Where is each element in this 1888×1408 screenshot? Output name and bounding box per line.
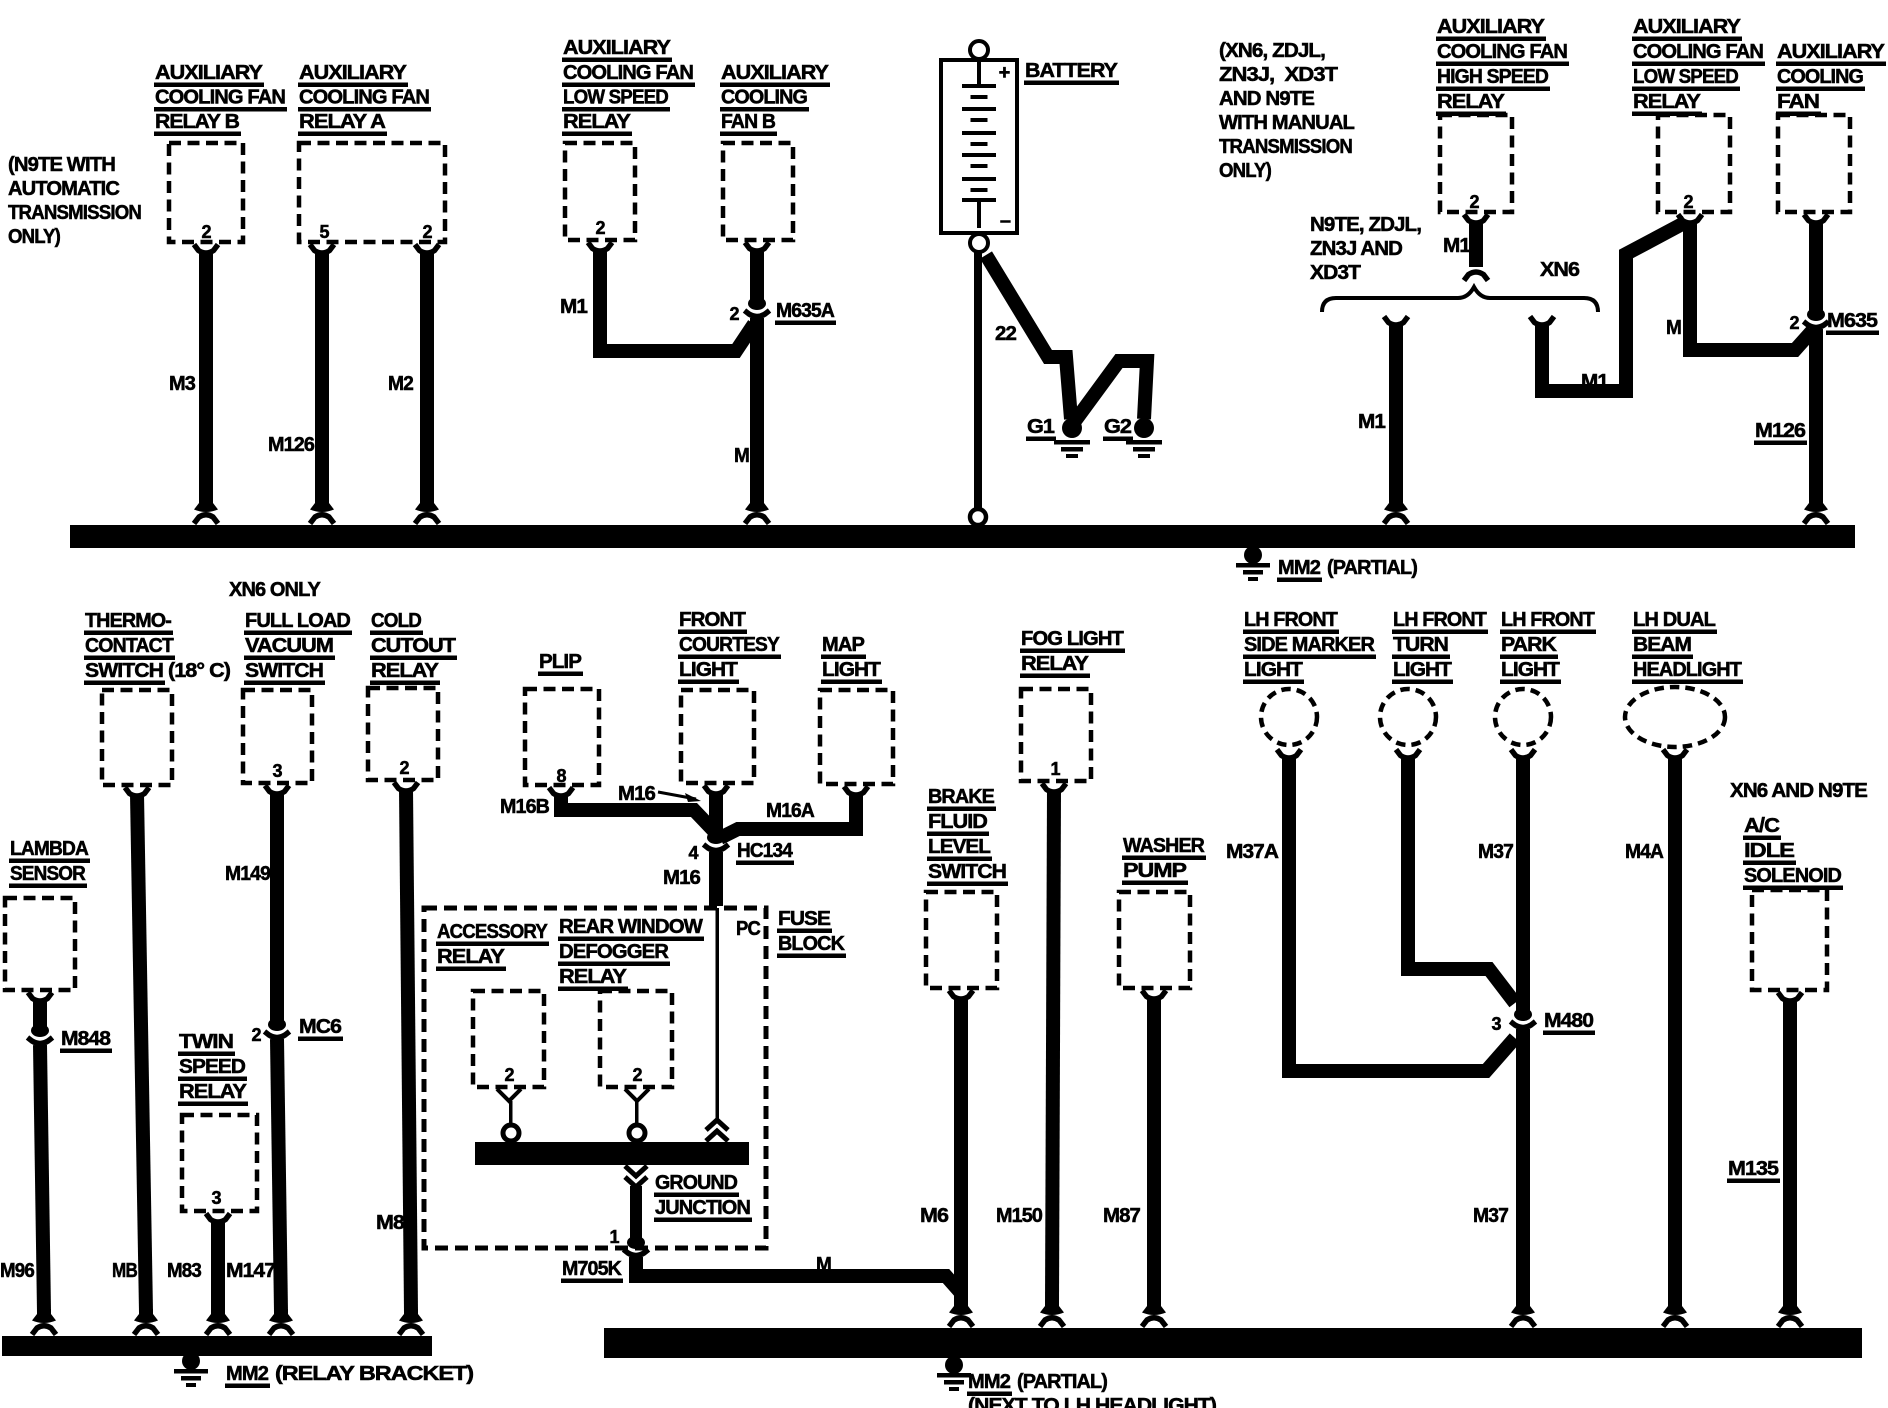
svg-text:(18° C): (18° C) [168, 659, 230, 682]
bus connector for headlight wire [1663, 1301, 1687, 1327]
relay K-LSR (auxiliary cooling fan low speed relay, right) [1658, 115, 1730, 212]
connector cup below brace left (N9TE branch) [1384, 317, 1408, 326]
connector cup at cold cutout relay [394, 783, 418, 792]
svg-text:AUXILIARY: AUXILIARY [1633, 15, 1741, 38]
svg-text:–: – [1000, 210, 1011, 232]
wire M3 (relay B pin 2 to ground bus) [199, 251, 213, 501]
ground symbol G1 [1054, 440, 1090, 458]
connector cup at fan B [745, 243, 769, 252]
ground junction bus [475, 1142, 749, 1165]
bus connector for wire M2 [415, 498, 439, 524]
wire M1 from high speed relay to option brace [1469, 221, 1483, 267]
map light [820, 690, 893, 784]
defogger relay stem to ground junction [625, 1089, 649, 1141]
accessory relay label [436, 920, 549, 971]
svg-text:ACCESSORY: ACCESSORY [437, 920, 548, 943]
note text (XN6, ZDJL, ZN3J, XD3T AND N9TE WITH MANUAL TRANSMISSION ONLY) [1219, 39, 1354, 182]
svg-text:+: + [999, 62, 1010, 84]
svg-text:M16: M16 [618, 782, 655, 805]
svg-text:AUXILIARY: AUXILIARY [299, 61, 407, 84]
svg-text:G2: G2 [1104, 415, 1132, 438]
svg-text:COURTESY: COURTESY [679, 633, 780, 656]
svg-text:PC: PC [736, 917, 761, 940]
svg-text:AND N9TE: AND N9TE [1219, 87, 1314, 110]
svg-text:COOLING: COOLING [1777, 65, 1863, 88]
svg-text:2: 2 [399, 758, 409, 778]
wire M37 (turn light to splice M480) [1408, 756, 1515, 1003]
svg-text:LIGHT: LIGHT [1501, 658, 1560, 681]
svg-text:LIGHT: LIGHT [1244, 658, 1303, 681]
ground bus MM2 relay bracket (bottom left) [2, 1336, 432, 1356]
svg-text:M150: M150 [996, 1204, 1042, 1227]
svg-text:COOLING FAN: COOLING FAN [155, 86, 285, 109]
wire M8 (cold cutout relay to relay bracket bus) [406, 789, 411, 1312]
connector cup at headlight [1663, 750, 1687, 759]
fuse block label [777, 907, 846, 958]
label MC6 [298, 1015, 343, 1041]
full load vacuum switch [243, 690, 312, 783]
svg-text:M705K: M705K [562, 1257, 622, 1280]
accessory relay stem to ground junction [497, 1089, 521, 1141]
svg-text:M635: M635 [1827, 309, 1878, 332]
brake fluid level switch label [927, 785, 1008, 886]
auxiliary cooling fan B (motor) [723, 143, 793, 240]
twin speed relay label [178, 1030, 248, 1106]
svg-text:SENSOR: SENSOR [10, 862, 86, 885]
connector cup at lambda sensor [28, 993, 52, 1002]
svg-text:RELAY: RELAY [1437, 90, 1505, 113]
label MM2 (PARTIAL) bottom [967, 1370, 1107, 1396]
svg-text:FRONT: FRONT [679, 608, 746, 631]
ground symbol MM2 relay bracket [174, 1352, 208, 1387]
connector cup at relay K-LS pin 2 [588, 243, 612, 252]
wire M96 (splice M848 to relay bracket bus) [40, 1045, 44, 1312]
LH dual beam headlight [1625, 687, 1725, 747]
svg-text:(RELAY BRACKET): (RELAY BRACKET) [275, 1362, 473, 1385]
front courtesy light label [678, 608, 781, 684]
bus connector for wire M [745, 498, 769, 524]
connector cup at fan [1804, 215, 1828, 224]
svg-text:DEFOGGER: DEFOGGER [559, 940, 669, 963]
svg-text:M1: M1 [1581, 370, 1608, 393]
splice MC6 [265, 1018, 290, 1038]
bus connector for wire M147 [269, 1309, 293, 1335]
svg-text:M16A: M16A [766, 799, 815, 822]
svg-text:COOLING FAN: COOLING FAN [1633, 40, 1763, 63]
LH front side marker light label [1243, 608, 1376, 684]
svg-text:AUTOMATIC: AUTOMATIC [8, 177, 120, 200]
wire M135 (A/C idle solenoid to ground bus) [1783, 999, 1797, 1304]
svg-text:M: M [816, 1253, 831, 1276]
wire M1 (XN6 branch to low speed relay) [1542, 222, 1686, 391]
label M848 [60, 1027, 112, 1053]
connector cup at map light [844, 787, 868, 796]
svg-text:M4A: M4A [1625, 840, 1664, 863]
wire from fan B to splice M635A [750, 249, 764, 302]
svg-text:2: 2 [1469, 192, 1479, 212]
svg-text:MM2: MM2 [226, 1362, 268, 1385]
ground junction label [654, 1171, 752, 1222]
lambda sensor [5, 898, 75, 990]
connector cup at turn light [1396, 750, 1420, 759]
wire M6 (brake fluid level switch to ground bus) [954, 997, 968, 1304]
bus connector for wire M8 [399, 1309, 423, 1335]
svg-text:GROUND: GROUND [655, 1171, 737, 1194]
svg-text:LH FRONT: LH FRONT [1501, 608, 1595, 631]
ground bus MM2 (top) [70, 525, 1855, 548]
ground bus MM2 next to LH headlight (bottom right) [604, 1328, 1862, 1358]
bus connector for wire M6 [949, 1301, 973, 1327]
wire M16B (PLIP to junction) [561, 794, 714, 831]
svg-text:MM2: MM2 [1278, 556, 1320, 579]
wire M2 (relay A pin 2 to ground bus) [420, 251, 434, 501]
label M16 with arrow [618, 782, 701, 805]
svg-text:RELAY: RELAY [563, 110, 631, 133]
svg-text:M8: M8 [376, 1211, 405, 1234]
relay K-B label: AUXILIARY COOLING FAN RELAY B [154, 61, 287, 136]
svg-text:RELAY B: RELAY B [155, 110, 239, 133]
svg-text:XN6 AND N9TE: XN6 AND N9TE [1730, 779, 1867, 802]
splice M480 [1511, 1008, 1536, 1028]
svg-text:M480: M480 [1544, 1009, 1594, 1032]
relay K-LS label: AUXILIARY COOLING FAN LOW SPEED RELAY [562, 36, 695, 136]
svg-text:M6: M6 [920, 1204, 949, 1227]
twin speed relay [182, 1115, 257, 1211]
PLIP label [538, 650, 583, 676]
svg-text:FAN B: FAN B [721, 110, 775, 133]
svg-text:PARK: PARK [1501, 633, 1557, 656]
svg-text:M16B: M16B [500, 795, 549, 818]
bus connector for wire M87 [1142, 1301, 1166, 1327]
svg-text:M126: M126 [1755, 419, 1806, 442]
svg-text:M635A: M635A [776, 299, 835, 322]
svg-text:(PARTIAL): (PARTIAL) [1017, 1370, 1107, 1393]
svg-text:RELAY: RELAY [179, 1080, 247, 1103]
svg-text:PLIP: PLIP [539, 650, 581, 673]
bus connector for wire M3 [194, 498, 218, 524]
map light label [821, 633, 882, 684]
option brace (N9TE... / XN6 split) [1322, 287, 1598, 312]
label M135 [1727, 1157, 1780, 1183]
svg-text:LIGHT: LIGHT [822, 658, 881, 681]
svg-text:AUXILIARY: AUXILIARY [721, 61, 829, 84]
wire from ground junction to splice M705K [630, 1186, 642, 1242]
label HC134 [736, 839, 794, 865]
connector cup at side marker light [1277, 750, 1301, 759]
svg-text:HEADLIGHT: HEADLIGHT [1633, 658, 1742, 681]
svg-text:COLD: COLD [371, 609, 421, 632]
wire from G1 to ground G2 [1075, 361, 1147, 421]
svg-text:HC134: HC134 [737, 839, 793, 862]
fog light relay label [1020, 627, 1125, 678]
wire M37A (side marker light to splice M480) [1289, 756, 1515, 1071]
wire MB (thermo-contact switch to relay bracket bus) [137, 794, 146, 1312]
splice M848 [28, 1024, 53, 1044]
svg-text:TRANSMISSION: TRANSMISSION [8, 201, 141, 224]
svg-text:LEVEL: LEVEL [928, 835, 990, 858]
svg-text:BATTERY: BATTERY [1025, 59, 1118, 82]
svg-text:M37A: M37A [1226, 840, 1279, 863]
bus connector for wire M37 [1511, 1301, 1535, 1327]
svg-text:COOLING: COOLING [721, 86, 807, 109]
brake fluid level switch [926, 892, 997, 988]
svg-text:M16: M16 [663, 866, 700, 889]
svg-text:M83: M83 [167, 1259, 201, 1282]
LH front side marker light [1261, 689, 1317, 745]
svg-text:1: 1 [1050, 759, 1060, 779]
wire M1 (N9TE branch to ground bus) [1389, 323, 1403, 501]
wire M (low speed relay to splice M635) [1690, 221, 1812, 350]
svg-text:2: 2 [1683, 192, 1693, 212]
connector cup at relay K-LSR pin 2 [1678, 215, 1702, 224]
svg-text:M2: M2 [388, 372, 413, 395]
svg-text:SIDE MARKER: SIDE MARKER [1244, 633, 1375, 656]
wire from park light to splice M480 [1516, 756, 1530, 1013]
svg-text:JUNCTION: JUNCTION [655, 1196, 750, 1219]
connector cup at park light [1511, 750, 1535, 759]
connector cup at PLIP [549, 788, 573, 797]
svg-text:3: 3 [211, 1188, 221, 1208]
svg-text:M126: M126 [268, 433, 314, 456]
svg-text:COOLING FAN: COOLING FAN [1437, 40, 1567, 63]
connector cup at twin speed relay pin 3 [206, 1214, 230, 1223]
svg-text:RELAY: RELAY [1633, 90, 1701, 113]
connector cup at brake fluid level switch [949, 991, 973, 1000]
connector cup at washer pump [1142, 991, 1166, 1000]
thermo-contact switch label [84, 609, 230, 685]
svg-text:5: 5 [319, 222, 329, 242]
label G2 [1103, 415, 1133, 441]
svg-text:ONLY): ONLY) [1219, 159, 1271, 182]
svg-text:SWITCH: SWITCH [245, 659, 323, 682]
svg-text:SPEED: SPEED [179, 1055, 245, 1078]
fan B label: AUXILIARY COOLING FAN B [720, 61, 830, 136]
svg-text:M1: M1 [560, 295, 587, 318]
svg-text:3: 3 [272, 761, 282, 781]
wire M149 (full load vacuum switch to splice MC6) [270, 792, 284, 1023]
svg-text:SWITCH: SWITCH [928, 860, 1006, 883]
svg-text:22: 22 [995, 322, 1016, 345]
LH dual beam headlight label [1632, 608, 1743, 684]
svg-text:M96: M96 [0, 1259, 34, 1282]
svg-text:RELAY: RELAY [371, 659, 439, 682]
A/C idle solenoid label [1743, 814, 1843, 890]
wire from battery negative to ground bus (thin) [970, 251, 986, 525]
svg-text:SOLENOID: SOLENOID [1744, 864, 1841, 887]
bus connector for wire M150 [1040, 1301, 1064, 1327]
connector cup at relay A pin 5 [310, 245, 334, 254]
washer pump label [1122, 834, 1206, 885]
svg-text:LOW SPEED: LOW SPEED [563, 86, 668, 109]
fog light relay [1021, 689, 1091, 781]
svg-text:LIGHT: LIGHT [679, 658, 738, 681]
svg-text:FUSE: FUSE [778, 907, 830, 930]
wire 22 (battery negative to body grounds) [986, 255, 1071, 419]
svg-text:MC6: MC6 [299, 1015, 342, 1038]
rear window defogger relay [600, 991, 672, 1087]
svg-text:CUTOUT: CUTOUT [371, 634, 456, 657]
LH front park light label [1500, 608, 1596, 684]
svg-text:IDLE: IDLE [1744, 839, 1794, 862]
relay K-HS (auxiliary cooling fan high speed relay) [1440, 115, 1512, 212]
svg-text:LH FRONT: LH FRONT [1244, 608, 1338, 631]
wire M4A (headlight to ground bus) [1668, 756, 1682, 1304]
svg-text:TWIN: TWIN [179, 1030, 233, 1053]
svg-text:MAP: MAP [822, 633, 864, 656]
svg-text:M37: M37 [1473, 1204, 1508, 1227]
label MM2 (RELAY BRACKET) [225, 1362, 473, 1388]
bus connector for wire M126 [310, 498, 334, 524]
svg-text:M1: M1 [1443, 234, 1470, 257]
ground symbol MM2 (next to LH headlight) [937, 1356, 971, 1391]
connector cup at A/C idle solenoid [1778, 993, 1802, 1002]
wire M16 (junction to fuse block) [709, 852, 723, 906]
svg-text:VACUUM: VACUUM [245, 634, 333, 657]
svg-text:M848: M848 [61, 1027, 111, 1050]
svg-text:ONLY): ONLY) [8, 225, 60, 248]
svg-text:THERMO-: THERMO- [85, 609, 171, 632]
wire M126 (splice M635 to ground bus) [1809, 329, 1823, 501]
bus connector for wire M83 [206, 1309, 230, 1335]
svg-text:SWITCH: SWITCH [85, 659, 163, 682]
ground G2 terminal dot [1134, 418, 1154, 438]
bus connector for wire MB [134, 1309, 158, 1335]
washer pump [1119, 892, 1190, 988]
svg-text:LH FRONT: LH FRONT [1393, 608, 1487, 631]
arrow connector below ground junction [625, 1166, 647, 1187]
relay K-A (auxiliary cooling fan relay A) [299, 143, 445, 242]
wire from fan to splice M635 [1809, 221, 1823, 313]
svg-text:M3: M3 [169, 372, 195, 395]
svg-text:M149: M149 [225, 862, 270, 885]
svg-text:PUMP: PUMP [1123, 859, 1186, 882]
svg-text:XN6 ONLY: XN6 ONLY [229, 578, 321, 601]
wire M16A (map light to junction) [720, 793, 856, 838]
svg-text:ZN3J, XD3T: ZN3J, XD3T [1219, 63, 1338, 86]
svg-text:RELAY: RELAY [559, 965, 627, 988]
relay K-LSR label: AUXILIARY COOLING FAN LOW SPEED RELAY [1632, 15, 1765, 116]
battery label [1024, 59, 1119, 85]
wire M1 (low speed relay to splice M635A) [600, 249, 754, 351]
lambda sensor label [9, 837, 90, 888]
svg-text:(PARTIAL): (PARTIAL) [1327, 556, 1417, 579]
label M705K [561, 1257, 623, 1283]
svg-text:FULL LOAD: FULL LOAD [245, 609, 350, 632]
svg-text:MM2: MM2 [968, 1370, 1010, 1393]
svg-text:(XN6, ZDJL,: (XN6, ZDJL, [1219, 39, 1325, 62]
ground G1 terminal dot [1062, 418, 1082, 438]
arrow connector of PC wire at ground junction [706, 1120, 728, 1141]
svg-text:M1: M1 [1358, 410, 1385, 433]
cold cutout relay [368, 688, 438, 780]
relay K-HS label: AUXILIARY COOLING FAN HIGH SPEED RELAY [1436, 15, 1569, 116]
svg-text:RELAY: RELAY [1021, 652, 1089, 675]
svg-text:REAR WINDOW: REAR WINDOW [559, 915, 704, 938]
svg-text:M37: M37 [1478, 840, 1513, 863]
relay K-LS (auxiliary cooling fan low speed relay, left) [565, 143, 635, 240]
svg-text:BRAKE: BRAKE [928, 785, 994, 808]
wire M147 (splice MC6 to relay bracket bus) [277, 1039, 281, 1312]
svg-text:2: 2 [422, 222, 432, 242]
label G1 [1026, 415, 1056, 441]
LH front turn light [1380, 689, 1436, 745]
bus connector for N9TE M1 wire [1384, 498, 1408, 524]
note text N9TE, ZDJL, ZN3J AND XD3T [1310, 213, 1421, 284]
wire M (splice M635A to ground bus) [750, 318, 764, 501]
svg-text:A/C: A/C [1744, 814, 1780, 837]
svg-text:RELAY: RELAY [437, 945, 505, 968]
bus connector for wire M96 [32, 1309, 56, 1335]
svg-text:MB: MB [112, 1259, 137, 1282]
svg-text:TURN: TURN [1393, 633, 1448, 656]
svg-text:XD3T: XD3T [1310, 261, 1361, 284]
svg-text:G1: G1 [1027, 415, 1055, 438]
LH front turn light label [1392, 608, 1488, 684]
wire M (splice M705K to ground bus next to LH headlight) [636, 1257, 961, 1293]
svg-text:M135: M135 [1728, 1157, 1779, 1180]
svg-text:2: 2 [504, 1065, 514, 1085]
ground symbol MM2 (partial) [1236, 546, 1270, 581]
relay K-B (auxiliary cooling fan relay B) [169, 143, 243, 242]
wire PC (printed circuit, thin) [716, 908, 720, 1121]
battery [941, 41, 1017, 252]
note text (N9TE WITH AUTOMATIC TRANSMISSION ONLY) [8, 153, 141, 248]
svg-text:XN6: XN6 [1540, 258, 1580, 281]
connector cup at front courtesy light [704, 786, 728, 795]
wire M37 (splice M480 to ground bus) [1516, 1029, 1530, 1304]
fan label: AUXILIARY COOLING FAN [1776, 40, 1886, 116]
wire from lambda sensor to splice M848 [33, 999, 47, 1029]
svg-text:LAMBDA: LAMBDA [10, 837, 89, 860]
svg-text:3: 3 [1491, 1014, 1501, 1034]
label MM2 (PARTIAL) [1277, 556, 1417, 582]
svg-text:FOG LIGHT: FOG LIGHT [1021, 627, 1124, 650]
bus connector for wire M135 [1778, 1301, 1802, 1327]
connector cup at relay A pin 2 [415, 245, 439, 254]
svg-text:M: M [1666, 316, 1681, 339]
label M480 [1543, 1009, 1595, 1035]
wire M16 (courtesy light to junction) [709, 792, 723, 834]
svg-text:(N9TE WITH: (N9TE WITH [8, 153, 115, 176]
svg-text:LIGHT: LIGHT [1393, 658, 1452, 681]
svg-text:LH DUAL: LH DUAL [1633, 608, 1715, 631]
connector cup at thermo-contact switch [125, 788, 149, 797]
svg-text:BLOCK: BLOCK [778, 932, 845, 955]
splice M705K [624, 1236, 649, 1256]
svg-text:2: 2 [251, 1025, 261, 1045]
svg-text:ZN3J AND: ZN3J AND [1310, 237, 1402, 260]
svg-text:FAN: FAN [1777, 90, 1819, 113]
fuse block outline [424, 908, 766, 1248]
svg-text:FLUID: FLUID [928, 810, 987, 833]
svg-text:M: M [734, 444, 749, 467]
PLIP (remote receiver) [525, 689, 599, 785]
svg-text:HIGH SPEED: HIGH SPEED [1437, 65, 1548, 88]
wire M83 (twin speed relay to relay bracket bus) [211, 1220, 225, 1312]
svg-text:LOW SPEED: LOW SPEED [1633, 65, 1738, 88]
auxiliary cooling fan (motor, right) [1778, 115, 1850, 212]
svg-text:2: 2 [632, 1065, 642, 1085]
svg-text:WASHER: WASHER [1123, 834, 1205, 857]
wire M150 (fog light relay to ground bus) [1052, 790, 1054, 1304]
svg-text:AUXILIARY: AUXILIARY [563, 36, 671, 59]
svg-text:CONTACT: CONTACT [85, 634, 174, 657]
svg-text:M147: M147 [226, 1259, 276, 1282]
wire M126 (relay A pin 5 to ground bus) [315, 251, 329, 501]
bus connector for wire M126 [1804, 498, 1828, 524]
front courtesy light [681, 690, 754, 783]
splice M635A [745, 297, 770, 317]
